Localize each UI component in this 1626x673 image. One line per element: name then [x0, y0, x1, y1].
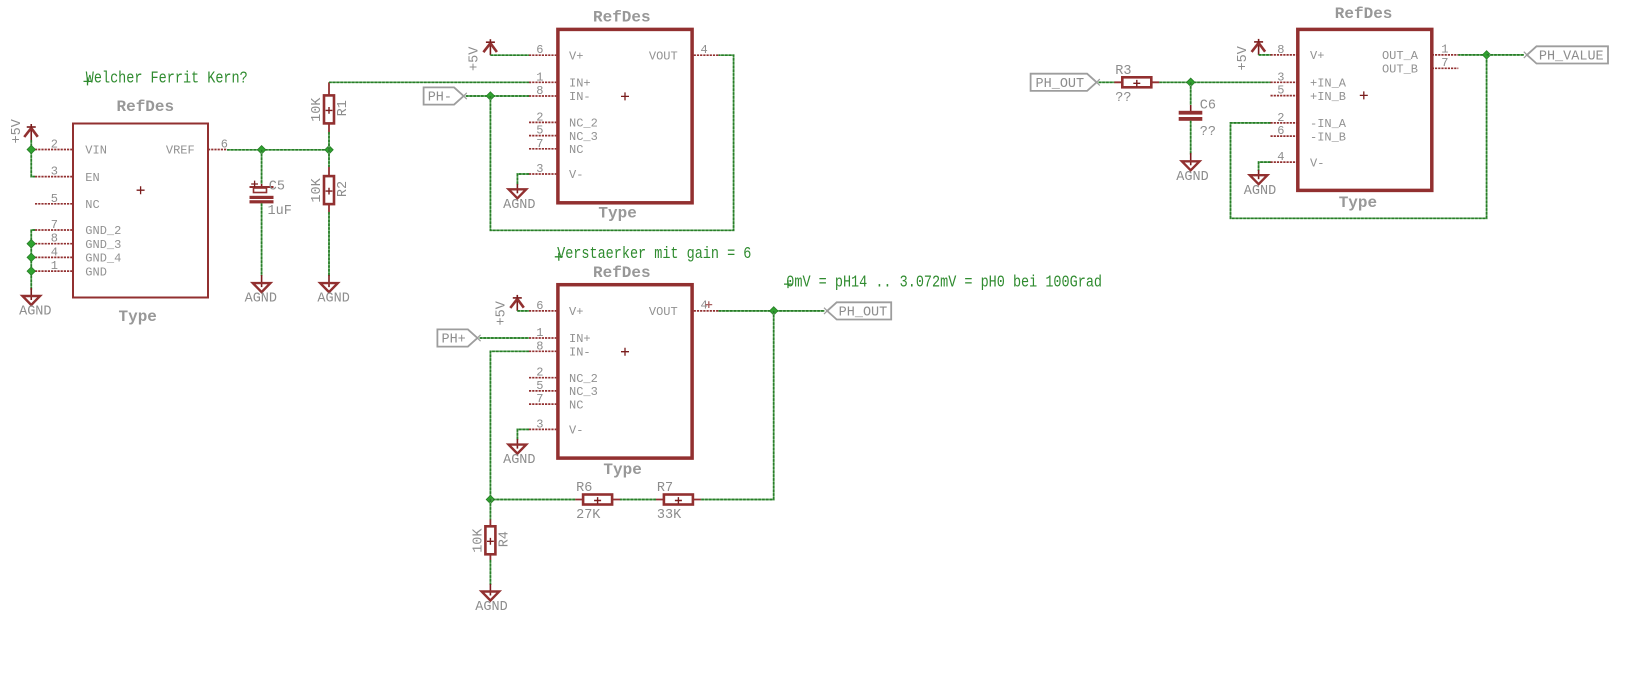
svg-text:10K: 10K	[310, 97, 325, 122]
wire R4 to AGND	[489, 560, 491, 585]
origin cross IC U2 origin	[621, 92, 629, 100]
svg-text:RefDes: RefDes	[1335, 5, 1393, 23]
wire VREF node to R2 top	[328, 150, 330, 167]
wire divider node to R4	[489, 500, 491, 520]
svg-text:5: 5	[536, 379, 543, 393]
junction GND_4 node	[27, 253, 35, 261]
net label PH_OUT (output)	[824, 302, 891, 320]
junction divider node	[486, 495, 494, 503]
svg-text:PH+: PH+	[441, 333, 465, 348]
svg-text:2: 2	[536, 366, 543, 380]
wire U1 GND link	[31, 270, 35, 272]
wire R1 to U2 IN+ net	[329, 81, 531, 83]
svg-text:NC_2: NC_2	[569, 372, 598, 386]
wire +5V to U2 V+	[490, 54, 529, 56]
IC U2 pin 2 (NC_2) stub	[529, 121, 556, 123]
svg-text:3: 3	[536, 162, 543, 176]
wire +5V to U3 V+	[517, 310, 529, 312]
wire R1 bottom to VREF node	[328, 132, 330, 150]
svg-text:Type: Type	[598, 205, 636, 223]
wire +5V to U4 V+	[1259, 54, 1271, 56]
junction GND node	[27, 267, 35, 275]
capacitor C5 (1uF)	[250, 181, 274, 203]
svg-text:7: 7	[536, 392, 543, 406]
svg-text:1uF: 1uF	[268, 204, 292, 219]
IC U4 pin 4 (V-) stub	[1271, 161, 1298, 163]
net label PH+	[437, 329, 480, 347]
svg-text:3: 3	[1277, 70, 1284, 84]
supply +5V symbol at U2 V+	[483, 39, 497, 55]
IC U3 pin 2 (NC_2) stub	[529, 377, 556, 379]
svg-text:4: 4	[701, 43, 708, 57]
svg-text:33K: 33K	[657, 508, 682, 523]
junction GND_3 node	[27, 240, 35, 248]
IC U4 pin 5 (+IN_B) stub	[1271, 95, 1298, 97]
wire +5V to VIN stub	[31, 149, 35, 151]
svg-text:R3: R3	[1115, 64, 1131, 79]
svg-text:8: 8	[51, 232, 58, 246]
svg-text:Type: Type	[119, 308, 157, 326]
IC U1 pin 4 (GND_4) stub	[35, 256, 73, 258]
svg-text:R7: R7	[657, 481, 673, 496]
junction R3/C6 node	[1187, 78, 1195, 86]
svg-text:RefDes: RefDes	[117, 98, 175, 116]
IC U3 pin 4 (VOUT) stub	[694, 310, 719, 312]
net label PH-	[424, 87, 467, 105]
svg-text:C5: C5	[269, 180, 285, 195]
svg-text:1: 1	[536, 326, 543, 340]
IC U4 pin 7 (OUT_B) stub	[1432, 67, 1459, 69]
svg-text:+IN_B: +IN_B	[1310, 90, 1346, 104]
svg-text:Type: Type	[1339, 194, 1377, 212]
wire U4 -IN_A feedback	[1231, 55, 1487, 218]
ground symbol below C5	[253, 275, 271, 292]
svg-text:-IN_A: -IN_A	[1310, 117, 1347, 131]
ground symbol below C6	[1182, 153, 1200, 170]
svg-text:AGND: AGND	[1176, 170, 1208, 185]
IC U1 pin 3 (EN) stub	[35, 176, 73, 178]
wire U3 V- to AGND	[517, 429, 529, 440]
wire R3/C6 node to C6	[1190, 82, 1192, 105]
junction VOUT/feedback node	[770, 307, 778, 315]
junction VREF/C5 node	[257, 146, 265, 154]
supply +5V symbol at U1 VIN	[24, 124, 38, 140]
svg-text:8: 8	[1277, 43, 1284, 57]
IC U4 pin 8 (V+) stub	[1271, 54, 1298, 56]
svg-text:OUT_B: OUT_B	[1382, 63, 1418, 77]
origin cross comment origin 2	[555, 253, 563, 261]
junction on +5V/VIN net	[27, 145, 35, 153]
svg-text:??: ??	[1115, 91, 1131, 106]
svg-text:V-: V-	[569, 424, 583, 438]
IC U1 (voltage reference) body	[73, 124, 208, 298]
svg-text:0mV = pH14 .. 3.072mV = pH0 be: 0mV = pH14 .. 3.072mV = pH0 bei 100Grad	[786, 272, 1102, 292]
resistor R6 (27K)	[575, 495, 620, 505]
svg-text:5: 5	[51, 192, 58, 206]
svg-text:VOUT: VOUT	[649, 49, 678, 63]
resistor R1 (10K)	[324, 82, 334, 132]
svg-text:2: 2	[51, 138, 58, 152]
svg-text:8: 8	[536, 339, 543, 353]
svg-text:??: ??	[1200, 125, 1216, 140]
supply +5V symbol at U3 V+	[510, 295, 524, 311]
net label PH_OUT (input)	[1031, 74, 1100, 92]
svg-text:R1: R1	[336, 100, 351, 116]
origin cross IC U4 origin	[1360, 91, 1368, 99]
wire feedback down to R7	[701, 311, 774, 500]
net label PH_VALUE	[1524, 46, 1608, 64]
IC U3 pin 3 (V-) stub	[529, 428, 556, 430]
svg-text:3: 3	[536, 417, 543, 431]
capacitor C6 (??)	[1179, 104, 1203, 121]
IC U2 pin 5 (NC_3) stub	[529, 135, 556, 137]
svg-text:6: 6	[536, 299, 543, 313]
ground symbol below R4	[482, 584, 500, 601]
svg-text:1: 1	[1441, 43, 1448, 57]
resistor R7 (33K)	[656, 495, 701, 505]
IC U3 pin 1 (IN+) stub	[529, 337, 556, 339]
svg-text:NC: NC	[569, 143, 583, 157]
IC U3 pin 7 (NC) stub	[529, 403, 556, 405]
IC U4 body	[1298, 29, 1432, 190]
svg-text:+5V: +5V	[10, 118, 25, 143]
svg-text:3: 3	[51, 165, 58, 179]
origin cross IC U3 origin	[621, 348, 629, 356]
svg-text:GND_2: GND_2	[85, 224, 121, 238]
svg-text:V-: V-	[569, 168, 583, 182]
svg-text:-IN_B: -IN_B	[1310, 130, 1346, 144]
svg-text:7: 7	[51, 218, 58, 232]
svg-text:7: 7	[536, 137, 543, 151]
origin cross C5 plus mark	[251, 181, 258, 188]
svg-text:NC: NC	[85, 198, 99, 212]
svg-text:6: 6	[536, 43, 543, 57]
wire VREF net	[227, 149, 329, 151]
svg-text:+5V: +5V	[468, 46, 483, 71]
svg-text:PH_OUT: PH_OUT	[1036, 77, 1085, 92]
svg-text:AGND: AGND	[317, 292, 349, 307]
svg-text:V-: V-	[1310, 156, 1324, 170]
origin cross net origin near U3 pin 4	[705, 301, 712, 308]
svg-text:Type: Type	[603, 461, 641, 479]
svg-text:AGND: AGND	[19, 305, 51, 320]
IC U1 pin 5 (NC) stub	[35, 203, 73, 205]
svg-text:4: 4	[1277, 150, 1284, 164]
IC U3 pin 6 (V+) stub	[529, 310, 556, 312]
svg-text:6: 6	[221, 138, 228, 152]
svg-text:NC_3: NC_3	[569, 385, 598, 399]
wire C6 to AGND	[1190, 121, 1192, 155]
svg-text:8: 8	[536, 84, 543, 98]
svg-text:C6: C6	[1200, 99, 1216, 114]
svg-text:GND_3: GND_3	[85, 238, 121, 252]
svg-text:IN-: IN-	[569, 346, 591, 360]
svg-text:Welcher Ferrit Kern?: Welcher Ferrit Kern?	[86, 68, 248, 88]
resistor R4 (10K)	[485, 520, 495, 561]
svg-text:VREF: VREF	[166, 144, 195, 158]
IC U3 pin 8 (IN-) stub	[529, 350, 556, 352]
svg-text:VIN: VIN	[85, 144, 107, 158]
svg-text:4: 4	[51, 245, 58, 259]
IC U4 pin 3 (+IN_A) stub	[1271, 81, 1298, 83]
svg-text:V+: V+	[1310, 49, 1324, 63]
IC U2 pin 8 (IN-) stub	[529, 95, 556, 97]
svg-text:2: 2	[1277, 111, 1284, 125]
wire VREF to C5 top	[261, 150, 263, 184]
wire C5 bottom to AGND	[261, 203, 263, 276]
svg-text:IN-: IN-	[569, 90, 591, 104]
IC U2 pin 6 (V+) stub	[529, 54, 556, 56]
svg-text:NC: NC	[569, 398, 583, 412]
IC U2 pin 7 (NC) stub	[529, 148, 556, 150]
svg-text:RefDes: RefDes	[593, 264, 651, 282]
wire +5V to U1 VIN and EN	[31, 140, 35, 177]
svg-text:RefDes: RefDes	[593, 9, 651, 27]
IC U3 (op-amp) body	[558, 285, 692, 458]
IC U2 pin 3 (V-) stub	[529, 173, 556, 175]
junction PH-/feedback node	[486, 92, 494, 100]
svg-text:GND: GND	[85, 265, 107, 279]
wire PH+ to U3 IN+	[480, 337, 529, 339]
resistor R3 (??)	[1114, 77, 1159, 87]
ground symbol below U1	[22, 288, 40, 305]
svg-text:V+: V+	[569, 305, 583, 319]
svg-text:AGND: AGND	[1244, 184, 1276, 199]
IC U1 pin 1 (GND) stub	[35, 270, 73, 272]
svg-text:AGND: AGND	[503, 453, 535, 468]
origin cross comment origin	[84, 77, 92, 85]
svg-text:5: 5	[1277, 84, 1284, 98]
svg-text:AGND: AGND	[245, 292, 277, 307]
svg-text:10K: 10K	[471, 528, 486, 553]
wire OUT_A to PH_VALUE	[1487, 54, 1524, 56]
svg-text:VOUT: VOUT	[649, 305, 678, 319]
svg-text:PH-: PH-	[428, 91, 452, 106]
IC U1 pin 2 (VIN) stub	[35, 149, 73, 151]
svg-text:NC_2: NC_2	[569, 117, 598, 131]
IC U1 pin 7 (GND_2) stub	[35, 229, 73, 231]
ground symbol below U3 V-	[509, 439, 527, 454]
svg-text:+IN_A: +IN_A	[1310, 77, 1347, 91]
wire U2 V- to AGND	[517, 174, 529, 185]
svg-text:AGND: AGND	[503, 198, 535, 213]
IC U2 pin 4 (VOUT) stub	[694, 54, 719, 56]
svg-text:R6: R6	[576, 481, 592, 496]
svg-text:V+: V+	[569, 49, 583, 63]
svg-text:R2: R2	[336, 181, 351, 197]
wire U3 IN- to divider node	[490, 351, 529, 499]
wire U1 GND_4 link	[31, 256, 35, 258]
IC U3 pin 5 (NC_3) stub	[529, 390, 556, 392]
svg-text:6: 6	[1277, 124, 1284, 138]
svg-text:10K: 10K	[310, 177, 325, 202]
svg-text:Verstaerker mit gain = 6: Verstaerker mit gain = 6	[557, 244, 751, 264]
svg-text:PH_OUT: PH_OUT	[839, 306, 888, 321]
svg-text:EN: EN	[85, 171, 99, 185]
IC U1 pin 8 (GND_3) stub	[35, 243, 73, 245]
wire PH_OUT to R3	[1099, 81, 1115, 83]
wire R2 bottom to AGND	[328, 212, 330, 276]
svg-text:AGND: AGND	[475, 600, 507, 615]
ground symbol below U4 V-	[1250, 170, 1268, 184]
IC U2 pin 1 (IN+) stub	[529, 81, 556, 83]
IC U4 pin 1 (OUT_A) stub	[1432, 54, 1459, 56]
svg-text:5: 5	[536, 124, 543, 138]
IC U4 pin 6 (-IN_B) stub	[1271, 135, 1298, 137]
svg-text:27K: 27K	[576, 508, 601, 523]
wire U2 feedback loop	[490, 55, 733, 230]
svg-text:NC_3: NC_3	[569, 130, 598, 144]
wire U1 GND_3 link	[31, 243, 35, 245]
supply +5V symbol at U4 V+	[1252, 39, 1266, 55]
ground symbol below R2	[320, 275, 338, 292]
origin cross comment origin 3	[784, 280, 792, 288]
svg-text:7: 7	[1441, 56, 1448, 70]
svg-text:+5V: +5V	[1236, 45, 1251, 70]
ground symbol below U2 V-	[509, 184, 527, 198]
junction VREF/R1/R2 node	[325, 146, 333, 154]
svg-text:4: 4	[701, 299, 708, 313]
wire U1 GND pins bus	[31, 230, 35, 290]
wire U4 V- to AGND	[1259, 162, 1271, 171]
svg-text:1: 1	[536, 70, 543, 84]
wire R3 to U4 +IN_A	[1159, 81, 1270, 83]
wire R6 to divider node	[490, 499, 575, 501]
IC U2 (op-amp) body	[558, 29, 692, 202]
svg-text:R4: R4	[497, 531, 512, 547]
svg-text:GND_4: GND_4	[85, 252, 121, 266]
svg-text:IN+: IN+	[569, 332, 591, 346]
wire U3 VOUT to PH_OUT	[719, 310, 825, 312]
junction OUT_A/feedback node	[1482, 51, 1490, 59]
svg-text:IN+: IN+	[569, 77, 591, 91]
svg-text:OUT_A: OUT_A	[1382, 49, 1419, 63]
wire PH- to U2 IN-	[466, 95, 529, 97]
origin cross IC U1 origin	[137, 186, 145, 194]
resistor R2 (10K)	[324, 167, 334, 212]
svg-text:2: 2	[536, 110, 543, 124]
IC U4 pin 2 (-IN_A) stub	[1271, 122, 1298, 124]
svg-text:+5V: +5V	[495, 300, 510, 325]
wire R7 to R6 link	[620, 499, 656, 501]
svg-text:1: 1	[51, 259, 58, 273]
svg-text:PH_VALUE: PH_VALUE	[1539, 50, 1604, 65]
IC U1 pin 6 (VREF) stub	[208, 149, 227, 151]
